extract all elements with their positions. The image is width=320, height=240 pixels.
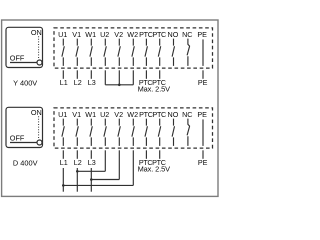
contact NC (NC, break contact) bbox=[187, 119, 190, 146]
contact U2 bbox=[104, 119, 106, 146]
svg-text:PE: PE bbox=[198, 78, 208, 87]
wire U2 down bbox=[104, 70, 106, 85]
wire PE through box bbox=[202, 119, 204, 145]
wire V2 down bbox=[118, 150, 120, 179]
svg-text:V1: V1 bbox=[72, 110, 81, 119]
contact U1 bbox=[62, 39, 64, 66]
svg-text:V1: V1 bbox=[72, 30, 81, 39]
contact W2 bbox=[132, 39, 134, 66]
wire stub PE bbox=[202, 70, 204, 79]
svg-text:L1: L1 bbox=[60, 78, 68, 87]
switch lever line (OFF position) bbox=[10, 62, 37, 64]
wire L3 column below label bbox=[90, 168, 92, 192]
wire W2 down bbox=[132, 150, 134, 185]
contact V1 bbox=[76, 119, 78, 146]
wire stub PTC a bbox=[145, 70, 147, 79]
svg-text:U2: U2 bbox=[100, 110, 109, 119]
svg-text:OFF: OFF bbox=[10, 134, 25, 143]
wire L1 stub bbox=[62, 70, 64, 79]
svg-text:L1: L1 bbox=[60, 158, 68, 167]
junction V2/bridge bbox=[118, 84, 121, 87]
switch knob circle bbox=[37, 60, 42, 65]
bus L1: U1-W2 bbox=[63, 184, 133, 186]
svg-text:PE: PE bbox=[197, 110, 207, 119]
switch dotted travel line to ON bbox=[38, 116, 40, 139]
wire stub PTC a bbox=[145, 150, 147, 159]
main switch box (D 400V) bbox=[6, 107, 43, 147]
svg-text:V2: V2 bbox=[114, 30, 123, 39]
wire PE through box bbox=[202, 39, 204, 66]
outer frame bbox=[2, 20, 218, 196]
wire V2 down bbox=[118, 70, 120, 85]
contact V2 bbox=[118, 39, 120, 66]
wire U2 down bbox=[104, 150, 106, 171]
switch knob circle bbox=[37, 140, 42, 145]
contact PTC bbox=[145, 39, 147, 66]
svg-text:U2: U2 bbox=[100, 30, 109, 39]
wire stub PTC b bbox=[159, 70, 161, 79]
svg-text:PTC: PTC bbox=[152, 30, 166, 39]
star bridge U2-V2-W2 bbox=[105, 84, 133, 86]
svg-text:PTC: PTC bbox=[139, 110, 153, 119]
terminal box (dashed) bbox=[54, 28, 213, 68]
wire stub PTC b bbox=[159, 150, 161, 159]
svg-text:V2: V2 bbox=[114, 110, 123, 119]
contact U2 bbox=[104, 39, 106, 66]
contact W2 bbox=[132, 119, 134, 146]
switch lever line (OFF position) bbox=[10, 142, 37, 144]
svg-text:L3: L3 bbox=[88, 158, 96, 167]
contact NC (NC, break contact) bbox=[187, 39, 190, 66]
contact W1 bbox=[90, 39, 92, 66]
svg-text:NO: NO bbox=[168, 30, 179, 39]
svg-text:NO: NO bbox=[168, 110, 179, 119]
contact V1 bbox=[76, 39, 78, 66]
svg-text:NC: NC bbox=[182, 110, 192, 119]
svg-text:ON: ON bbox=[31, 108, 42, 117]
svg-text:U1: U1 bbox=[58, 110, 67, 119]
svg-text:PTC: PTC bbox=[139, 30, 153, 39]
contact V2 bbox=[118, 119, 120, 146]
svg-text:PTC: PTC bbox=[152, 110, 166, 119]
terminal box (dashed) bbox=[54, 108, 213, 148]
svg-text:Max. 2.5V: Max. 2.5V bbox=[138, 85, 171, 94]
svg-text:W1: W1 bbox=[85, 30, 96, 39]
svg-text:L2: L2 bbox=[74, 158, 82, 167]
svg-text:W1: W1 bbox=[85, 110, 96, 119]
svg-text:D 400V: D 400V bbox=[13, 159, 38, 168]
bus L3: W1-V2 bbox=[91, 179, 119, 181]
wire L1 column below label bbox=[62, 168, 64, 192]
svg-text:PE: PE bbox=[198, 158, 208, 167]
bus L2: V1-U2 bbox=[77, 170, 105, 172]
svg-text:L2: L2 bbox=[74, 78, 82, 87]
contact PTC bbox=[158, 39, 160, 66]
junction L3 bbox=[90, 178, 93, 181]
svg-text:U1: U1 bbox=[58, 30, 67, 39]
switch dotted travel line to ON bbox=[38, 36, 40, 59]
contact W1 bbox=[90, 119, 92, 146]
contact PTC bbox=[158, 119, 160, 146]
svg-text:OFF: OFF bbox=[10, 54, 25, 63]
wire L2 stub bbox=[76, 150, 78, 159]
wire L2 stub bbox=[76, 70, 78, 79]
svg-text:Y 400V: Y 400V bbox=[13, 79, 37, 88]
wire W2 down bbox=[132, 70, 134, 85]
junction L2 bbox=[76, 170, 79, 173]
svg-text:NC: NC bbox=[182, 30, 192, 39]
contact U1 bbox=[62, 119, 64, 146]
contact PTC bbox=[145, 119, 147, 146]
svg-text:W2: W2 bbox=[127, 110, 138, 119]
svg-text:L3: L3 bbox=[88, 78, 96, 87]
contact NO bbox=[172, 119, 174, 146]
wire stub PE bbox=[202, 150, 204, 159]
wire L3 stub bbox=[90, 70, 92, 79]
wire L2 column below label bbox=[76, 168, 78, 192]
svg-text:Max. 2.5V: Max. 2.5V bbox=[138, 165, 171, 174]
svg-text:ON: ON bbox=[31, 28, 42, 37]
svg-text:W2: W2 bbox=[127, 30, 138, 39]
junction L1 bbox=[62, 184, 65, 187]
svg-text:PE: PE bbox=[197, 30, 207, 39]
contact NO bbox=[172, 39, 174, 66]
wire L1 stub bbox=[62, 150, 64, 159]
wire L3 stub bbox=[90, 150, 92, 159]
main switch box (Y 400V) bbox=[6, 27, 43, 67]
